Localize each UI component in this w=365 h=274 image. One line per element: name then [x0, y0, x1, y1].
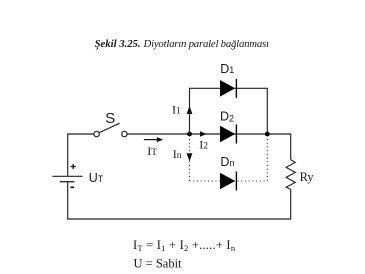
svg-text:IT: IT — [147, 144, 157, 158]
switch S — [94, 110, 127, 137]
diode D1 — [220, 79, 236, 98]
battery UT — [52, 164, 103, 187]
dotted wire bottom horizontal — [190, 180, 268, 182]
wire branch left vertical (node A up to top branch) — [189, 88, 191, 134]
svg-text:I1: I1 — [172, 102, 181, 116]
wire right vertical upper — [290, 134, 292, 160]
current arrow I2 — [200, 131, 207, 137]
current arrow IT — [144, 137, 163, 142]
wire top branch horizontal — [189, 87, 268, 89]
svg-text:UT: UT — [89, 171, 104, 185]
wire left vertical lower (battery - to bottom) — [67, 182, 69, 220]
svg-text:Diyotların paralel bağlanması: Diyotların paralel bağlanması — [143, 38, 270, 50]
svg-text:D2: D2 — [220, 110, 234, 124]
dotted wire left vertical (node A down) — [189, 139, 191, 181]
wire bottom horizontal — [67, 218, 291, 220]
svg-text:IT = I1 + I2 +.....+ In: IT = I1 + I2 +.....+ In — [133, 238, 236, 253]
diode D2 — [220, 125, 236, 144]
svg-text:In: In — [173, 147, 182, 161]
resistor Ry — [286, 160, 295, 190]
node B — [265, 132, 270, 137]
node A — [187, 132, 192, 137]
svg-text:D1: D1 — [220, 62, 234, 76]
current arrow In (down) — [187, 153, 193, 161]
svg-text:Şekil 3.25.: Şekil 3.25. — [95, 38, 141, 50]
wire right vertical lower — [290, 189, 292, 219]
wire left vertical upper (battery + to corner) — [67, 134, 69, 177]
dotted wire right vertical (node B down) — [266, 139, 268, 181]
svg-text:I2: I2 — [199, 138, 208, 152]
svg-text:U = Sabit: U = Sabit — [134, 257, 183, 271]
svg-text:Ry: Ry — [300, 170, 315, 184]
svg-text:Dn: Dn — [220, 155, 234, 169]
diode Dn — [220, 172, 236, 191]
wire left-top horizontal (battery to switch) — [68, 133, 94, 135]
current arrow I1 (up) — [187, 106, 193, 114]
wire branch right vertical (top branch down to node B) — [266, 88, 268, 134]
wire main horizontal (switch to right corner) — [127, 133, 291, 135]
svg-text:S: S — [105, 110, 115, 127]
